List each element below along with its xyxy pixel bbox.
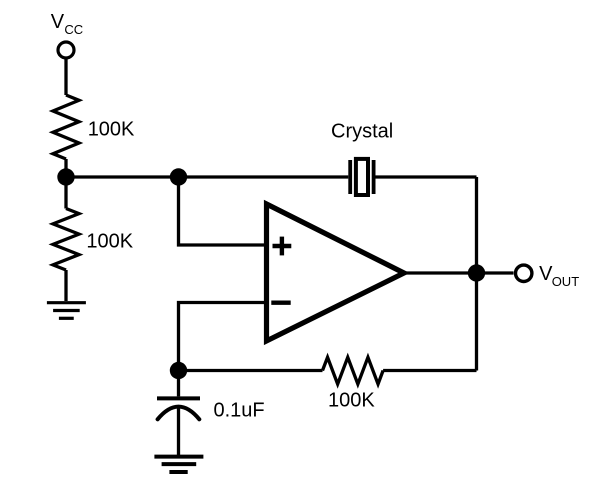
svg-text:V: V: [51, 11, 65, 33]
svg-text:100K: 100K: [86, 230, 133, 252]
svg-text:0.1uF: 0.1uF: [214, 400, 265, 422]
svg-text:OUT: OUT: [552, 274, 580, 289]
svg-text:CC: CC: [64, 22, 83, 37]
svg-text:100K: 100K: [328, 390, 375, 412]
svg-text:Crystal: Crystal: [331, 121, 393, 143]
svg-text:100K: 100K: [88, 119, 135, 141]
